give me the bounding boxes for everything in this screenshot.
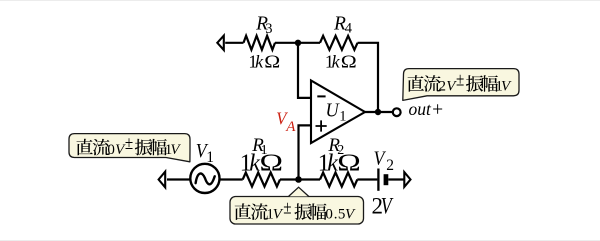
svg-text:Ω: Ω bbox=[337, 150, 361, 176]
svg-text:3: 3 bbox=[265, 21, 272, 37]
svg-text:k: k bbox=[255, 51, 264, 71]
svg-text:0: 0 bbox=[325, 207, 333, 223]
svg-text:2: 2 bbox=[439, 78, 447, 94]
svg-text:U: U bbox=[326, 101, 341, 122]
svg-text:A: A bbox=[285, 119, 296, 135]
svg-text:k: k bbox=[332, 51, 341, 71]
svg-text:Ω: Ω bbox=[260, 150, 284, 176]
svg-text:Ω: Ω bbox=[264, 51, 280, 71]
svg-text:0: 0 bbox=[107, 142, 115, 158]
svg-text:out: out bbox=[409, 99, 433, 119]
svg-text:±: ± bbox=[283, 198, 291, 219]
svg-text:2: 2 bbox=[386, 157, 394, 174]
svg-text:4: 4 bbox=[345, 21, 353, 37]
svg-text:1: 1 bbox=[339, 108, 346, 124]
svg-text:±: ± bbox=[456, 69, 464, 90]
svg-text:+: + bbox=[431, 100, 444, 121]
svg-text:±: ± bbox=[125, 133, 133, 154]
svg-text:1: 1 bbox=[206, 149, 214, 166]
svg-text:Ω: Ω bbox=[341, 51, 357, 71]
